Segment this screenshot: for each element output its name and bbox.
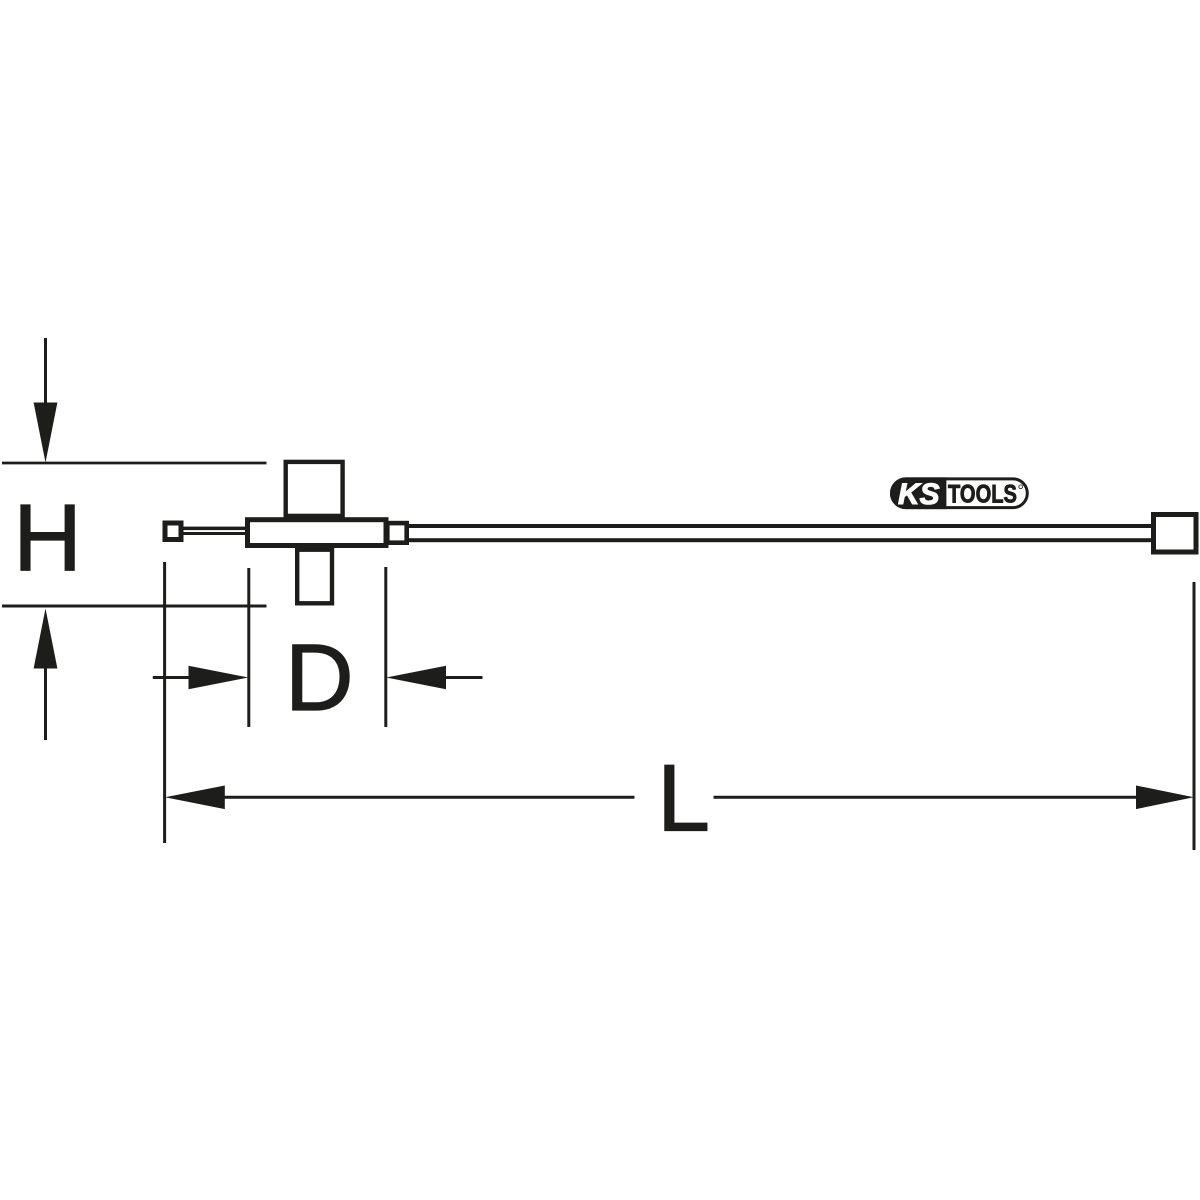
svg-text:L: L xyxy=(657,746,710,852)
svg-text:D: D xyxy=(285,625,354,731)
svg-text:H: H xyxy=(13,485,82,591)
svg-text:KS: KS xyxy=(898,478,940,511)
svg-text:TOOLS: TOOLS xyxy=(948,480,1017,508)
